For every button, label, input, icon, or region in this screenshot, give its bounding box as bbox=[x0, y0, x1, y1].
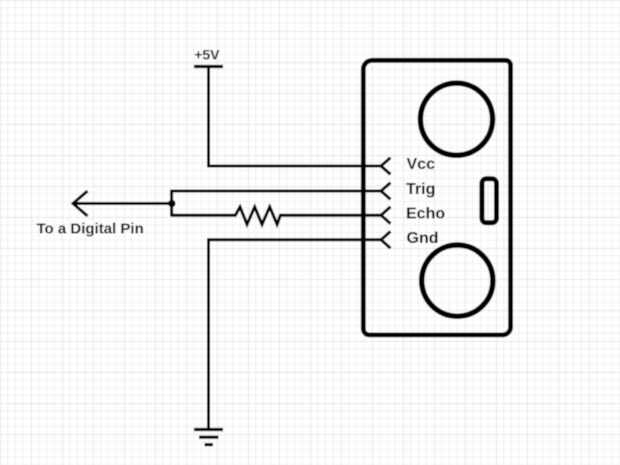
svg-text:Gnd: Gnd bbox=[407, 230, 439, 247]
svg-text:Echo: Echo bbox=[406, 205, 445, 222]
svg-text:Vcc: Vcc bbox=[407, 156, 436, 173]
svg-text:Trig: Trig bbox=[406, 181, 435, 198]
svg-text:To a Digital Pin: To a Digital Pin bbox=[37, 221, 144, 238]
svg-text:+5V: +5V bbox=[194, 47, 220, 63]
